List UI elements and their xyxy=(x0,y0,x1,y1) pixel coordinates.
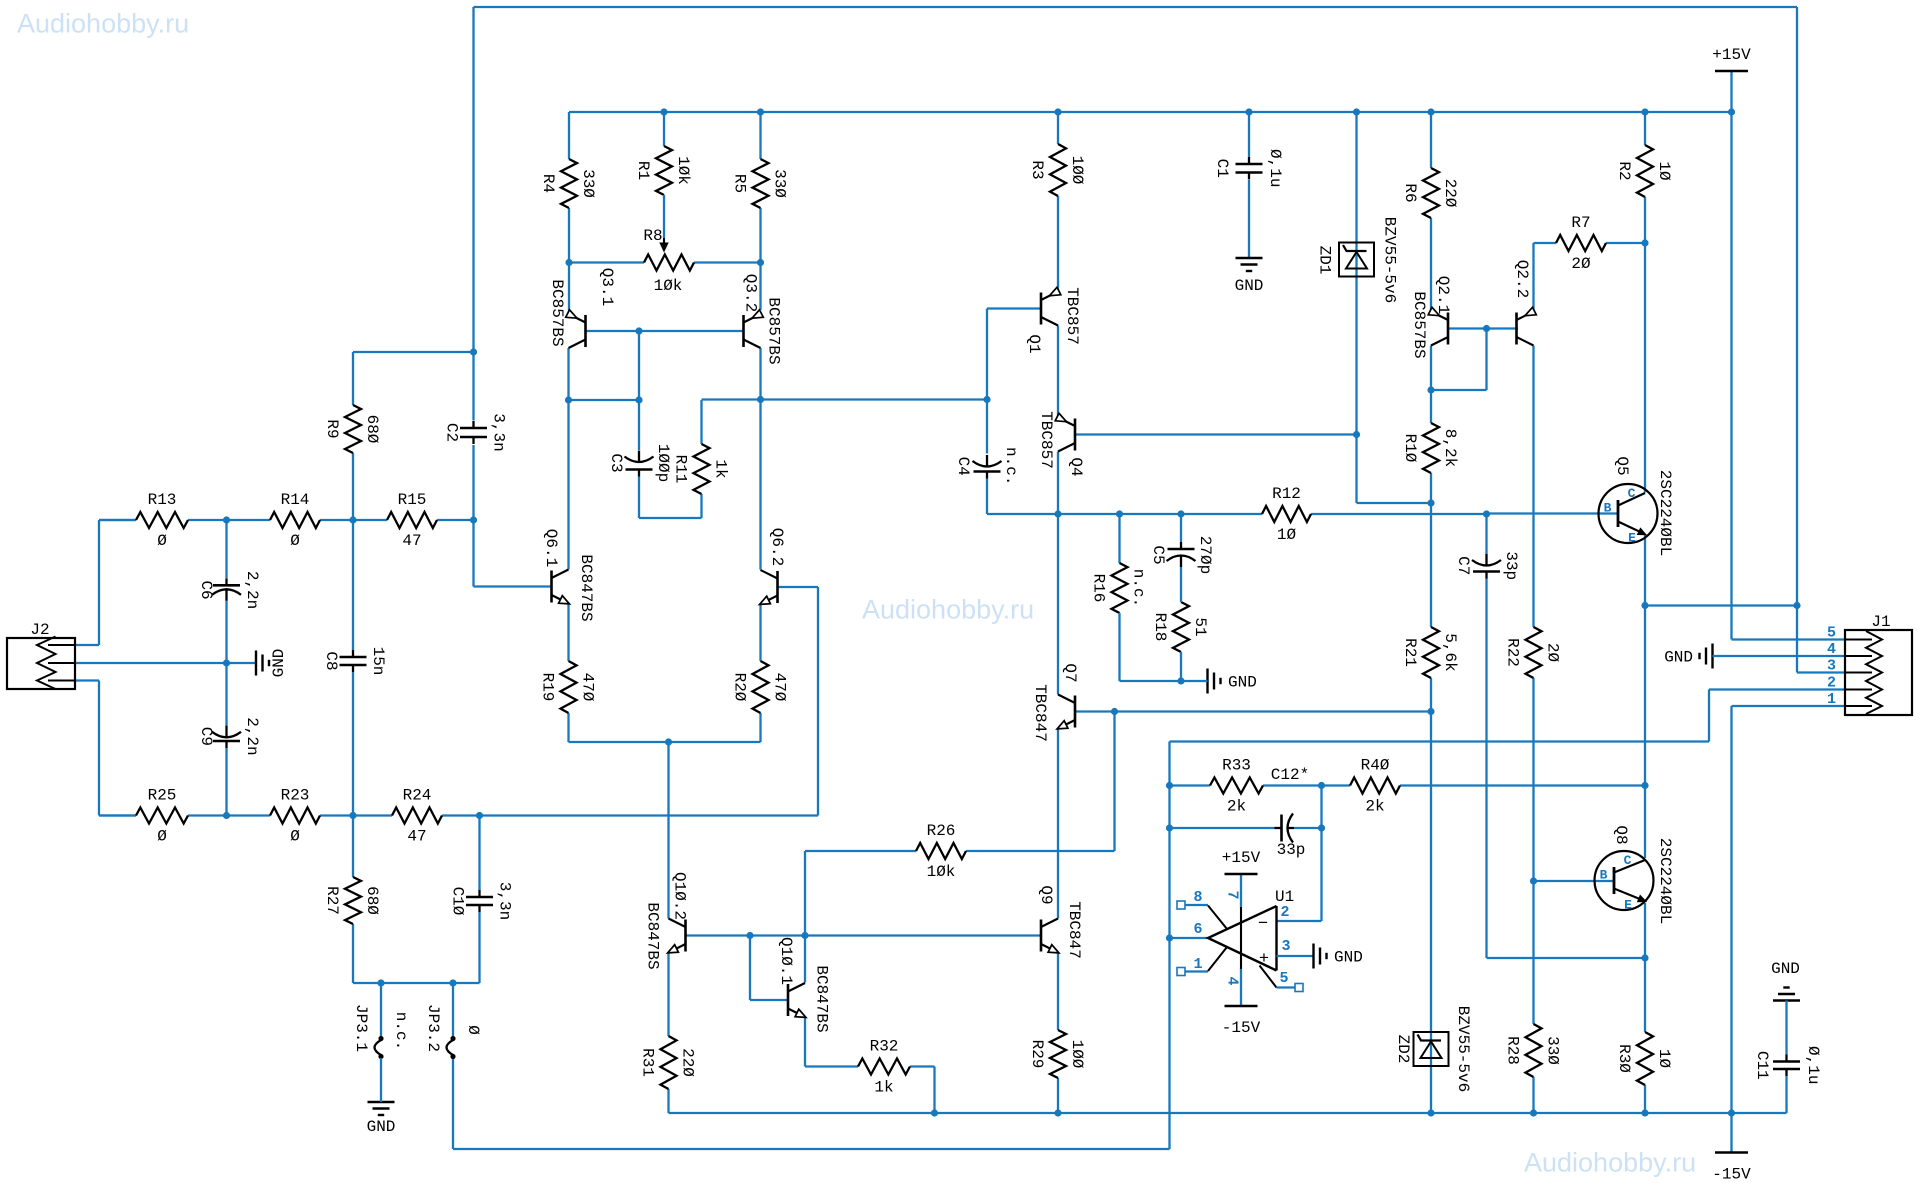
svg-text:C5: C5 xyxy=(1149,545,1167,564)
svg-text:Q2.2: Q2.2 xyxy=(1513,260,1531,298)
node JP3.2 top xyxy=(449,979,456,986)
svg-text:3: 3 xyxy=(1827,658,1836,675)
wire Q10.2 emitter to R31 xyxy=(667,953,669,1037)
svg-text:33Ø: 33Ø xyxy=(771,169,789,198)
svg-text:2,2n: 2,2n xyxy=(243,571,261,609)
svg-text:68Ø: 68Ø xyxy=(363,415,381,444)
resistor R20 xyxy=(753,661,769,713)
wire J2 pin3 riser xyxy=(98,681,100,816)
resistor R2 xyxy=(1644,112,1646,145)
resistor R21 xyxy=(1423,627,1439,678)
wire ZD2 column xyxy=(1430,712,1432,1114)
node Q10.1 base column xyxy=(746,932,753,939)
wire Q4 base xyxy=(1076,433,1357,435)
wire R8 right lead xyxy=(694,261,761,263)
svg-text:68Ø: 68Ø xyxy=(363,886,381,915)
svg-text:B: B xyxy=(1600,868,1608,883)
transistor Q10.1 xyxy=(787,984,790,1016)
wire Q6.2 base jog xyxy=(778,586,819,588)
wire R29 bottom xyxy=(1057,1078,1059,1113)
svg-text:C1: C1 xyxy=(1213,159,1231,178)
svg-text:GND: GND xyxy=(367,1118,396,1136)
wire Q10.1 base jog xyxy=(749,936,751,1001)
wire R31 bottom xyxy=(667,1089,669,1113)
svg-text:27Øp: 27Øp xyxy=(1196,536,1214,574)
svg-text:2,2n: 2,2n xyxy=(243,717,261,755)
ground J2 input xyxy=(255,651,257,676)
wire C6 bottom to node xyxy=(225,601,227,663)
svg-text:Q9: Q9 xyxy=(1037,885,1055,904)
resistor R1 xyxy=(663,112,665,146)
svg-text:2Ø: 2Ø xyxy=(1544,643,1562,663)
wire Q10.1 collector up xyxy=(804,936,806,983)
capacitor C1 xyxy=(1248,112,1250,157)
svg-text:R1: R1 xyxy=(634,161,652,180)
resistor R33 xyxy=(1210,778,1263,794)
svg-text:4: 4 xyxy=(1224,976,1241,985)
svg-text:1k: 1k xyxy=(712,459,730,478)
svg-text:Audiohobby.ru: Audiohobby.ru xyxy=(17,9,189,39)
svg-text:JP3.2: JP3.2 xyxy=(424,1004,442,1052)
svg-text:1ØØ: 1ØØ xyxy=(1068,1040,1086,1069)
node C5 top xyxy=(1177,510,1184,517)
svg-text:Q3.2: Q3.2 xyxy=(742,274,760,312)
wire R32 right jog xyxy=(910,1065,935,1067)
wire ZD1 column xyxy=(1355,112,1357,503)
wire R30 bottom xyxy=(1644,1085,1646,1113)
wire top rail xyxy=(474,6,1798,8)
svg-text:-15V: -15V xyxy=(1222,1019,1261,1037)
wire tail down to Q10.2 xyxy=(667,742,669,919)
node C7 top xyxy=(1483,510,1490,517)
svg-text:5: 5 xyxy=(1279,970,1288,987)
svg-text:n.c.: n.c. xyxy=(392,1012,410,1050)
node R33 right R40 left xyxy=(1318,782,1325,789)
svg-text:1k: 1k xyxy=(874,1079,893,1097)
svg-text:15n: 15n xyxy=(369,647,387,676)
svg-text:C6: C6 xyxy=(197,580,215,599)
node Q2.1 collector R10 xyxy=(1427,386,1434,393)
wire R21 leads xyxy=(1430,503,1432,627)
op-amp nc pins xyxy=(1177,901,1185,909)
transistor Q7 xyxy=(1074,696,1077,728)
node R27 top xyxy=(349,812,356,819)
svg-text:Ø: Ø xyxy=(290,828,300,846)
svg-text:BC847BS: BC847BS xyxy=(813,965,831,1032)
capacitor C5 xyxy=(1180,542,1182,549)
op-amp output pin3 wire xyxy=(1277,955,1314,957)
node Q5 emitter junction xyxy=(1641,602,1648,609)
svg-text:8: 8 xyxy=(1193,889,1202,906)
node VAS row x=1058 xyxy=(1054,510,1061,517)
node tail current junction xyxy=(665,738,672,745)
jumper JP3.1 xyxy=(380,983,382,1036)
svg-text:+15V: +15V xyxy=(1222,849,1261,867)
wire R20 bottom xyxy=(759,713,761,742)
wire Q6.2 collector up xyxy=(759,400,761,570)
resistor R19 xyxy=(561,661,577,713)
wire R4-R8 node vertical xyxy=(568,208,570,312)
wire R28 bottom xyxy=(1532,1077,1534,1113)
wire Q6.1 base xyxy=(474,585,552,587)
svg-text:33p: 33p xyxy=(1502,551,1520,580)
svg-text:R8: R8 xyxy=(643,227,662,245)
wire +15 to J1 pin5 column xyxy=(1730,112,1732,640)
wire right vertical x=1797 from top xyxy=(1796,7,1798,673)
svg-text:R32: R32 xyxy=(870,1038,899,1056)
op-amp pin5 stub xyxy=(1260,966,1277,988)
node R40 right xyxy=(1641,782,1648,789)
svg-text:51: 51 xyxy=(1191,617,1209,636)
wire R3 bottom to Q1 emitter xyxy=(1057,196,1059,292)
node ZD1 top xyxy=(1353,108,1360,115)
wire collector row right segment xyxy=(702,398,761,400)
svg-text:R31: R31 xyxy=(639,1048,657,1077)
wire x=568 Q3.1 to Q6.1 collector xyxy=(567,400,569,570)
resistor R26 xyxy=(916,843,966,859)
svg-text:1Ø: 1Ø xyxy=(1655,1049,1673,1069)
svg-text:R12: R12 xyxy=(1272,485,1301,503)
svg-text:1Øk: 1Øk xyxy=(674,156,692,185)
node C10 top R24 right xyxy=(476,812,483,819)
wire pin2 column xyxy=(1320,786,1322,922)
wire Q5 emitter down xyxy=(1644,535,1646,606)
wire R16/R18 gnd row xyxy=(1118,613,1120,681)
wire R2 bottom xyxy=(1644,197,1646,243)
node C6 top xyxy=(223,516,230,523)
svg-text:R16: R16 xyxy=(1090,574,1108,603)
wire gnd to C11 xyxy=(1785,1001,1787,1055)
op-amp U1 xyxy=(1208,906,1277,971)
svg-text:BZV55-5v6: BZV55-5v6 xyxy=(1381,217,1399,303)
node R5 bottom R8 right xyxy=(757,259,764,266)
resistor R7 xyxy=(1556,235,1606,251)
svg-text:8,2k: 8,2k xyxy=(1441,429,1459,467)
wire J1 pin2 jog xyxy=(1709,688,1845,690)
wire y=605 link xyxy=(1645,604,1797,606)
svg-text:C9: C9 xyxy=(197,727,215,746)
node x=1797 y=605 junction xyxy=(1793,602,1800,609)
wire x=473 C2 to row junction xyxy=(472,445,474,520)
svg-text:R21: R21 xyxy=(1401,638,1419,667)
wire C10 bottom xyxy=(478,912,480,983)
resistor R24 xyxy=(392,808,442,824)
node Q3.1 collector xyxy=(565,396,572,403)
svg-text:C: C xyxy=(1624,853,1632,868)
svg-text:R19: R19 xyxy=(539,673,557,702)
svg-text:BC857BS: BC857BS xyxy=(548,279,566,346)
wire y=503 link xyxy=(1357,502,1432,504)
wire Q7 emitter to Q9 collector xyxy=(1057,729,1059,919)
capacitor C12 xyxy=(1170,827,1275,829)
svg-text:R29: R29 xyxy=(1028,1040,1046,1069)
wire Q6.2 emitter to R20 xyxy=(759,604,761,662)
resistor R31 xyxy=(661,1036,677,1089)
capacitor C8 xyxy=(352,650,354,657)
transistor Q3.2 xyxy=(742,315,745,347)
capacitor C9 xyxy=(225,726,227,739)
svg-text:ZD1: ZD1 xyxy=(1316,246,1334,275)
wire R12 leads xyxy=(1181,513,1262,515)
svg-text:E: E xyxy=(1628,531,1636,546)
wire J1 pin5 xyxy=(1732,638,1846,640)
svg-text:R28: R28 xyxy=(1504,1036,1522,1065)
wire x=1645 down to R40 node xyxy=(1644,606,1646,786)
node Q8 base node xyxy=(1530,877,1537,884)
svg-text:JP3.1: JP3.1 xyxy=(352,1004,370,1052)
svg-text:R27: R27 xyxy=(323,886,341,915)
wire J2 pin2 to gnd node xyxy=(75,662,227,664)
svg-text:C: C xyxy=(1628,486,1636,501)
svg-text:R2Ø: R2Ø xyxy=(731,673,749,702)
wire Q3.1 collector down xyxy=(567,348,569,400)
node R4 bottom R8 left xyxy=(565,259,572,266)
wire Q1 base jog xyxy=(987,307,1041,309)
wire R26 right jog xyxy=(966,850,1115,852)
transistor Q5 xyxy=(1599,484,1658,543)
ground C1 xyxy=(1248,180,1250,258)
svg-text:R2: R2 xyxy=(1615,161,1633,180)
resistor R18 xyxy=(1173,602,1189,652)
wire Q2 base link xyxy=(1449,327,1519,329)
svg-text:47Ø: 47Ø xyxy=(771,673,789,702)
svg-text:B: B xyxy=(1604,501,1612,516)
resistor R40 xyxy=(1350,778,1400,794)
wire to Q5 base xyxy=(1487,512,1619,514)
resistor R25 xyxy=(99,814,136,816)
wire C9 top lead xyxy=(225,663,227,726)
wire R5 bottom to Q3.2 emitter xyxy=(759,208,761,263)
svg-text:2: 2 xyxy=(1280,904,1289,921)
svg-text:J2: J2 xyxy=(30,621,49,639)
svg-text:Q8: Q8 xyxy=(1612,825,1630,844)
node input gnd xyxy=(223,659,230,666)
wire to R9 top xyxy=(353,351,474,353)
svg-text:2SC224ØBL: 2SC224ØBL xyxy=(1656,470,1674,556)
svg-text:47: 47 xyxy=(402,532,421,550)
svg-text:3: 3 xyxy=(1281,938,1290,955)
power -15V bottom xyxy=(1715,1151,1748,1153)
transistor Q8 xyxy=(1595,851,1654,910)
svg-text:R6: R6 xyxy=(1401,183,1419,202)
wire R19 bottom xyxy=(567,713,569,742)
wire C3 top lead xyxy=(638,400,640,450)
wire R27 top xyxy=(352,816,354,878)
node R9 top junction xyxy=(470,348,477,355)
wire Q2.1 diode link xyxy=(1431,389,1487,391)
wire +15V stub vertical xyxy=(1730,71,1732,112)
wire C10 top lead xyxy=(478,816,480,891)
wire R27 bottom xyxy=(352,924,354,983)
wire R30 top xyxy=(1644,958,1646,1032)
wire Q2.1 collector down xyxy=(1430,346,1432,391)
svg-text:R9: R9 xyxy=(323,419,341,438)
wire Q7 base row y=711.5 xyxy=(1076,710,1432,712)
resistor R13 xyxy=(99,519,136,521)
wire base junction down to collector row xyxy=(638,331,640,400)
svg-text:R4: R4 xyxy=(539,174,557,193)
svg-text:GND: GND xyxy=(1228,674,1257,692)
zener diode ZD1 xyxy=(1339,243,1374,277)
svg-text:R18: R18 xyxy=(1151,613,1169,642)
wire J1 pin4 xyxy=(1713,655,1846,657)
node R16 top xyxy=(1116,510,1123,517)
resistor R14 xyxy=(270,512,320,528)
resistor R5 xyxy=(759,112,761,159)
svg-text:GND: GND xyxy=(1664,649,1693,667)
resistor R10 xyxy=(1423,423,1439,473)
resistor R16 xyxy=(1118,514,1120,563)
node R5 top xyxy=(757,108,764,115)
svg-text:n.c.: n.c. xyxy=(1130,569,1148,607)
wire JP3.2 bottom rail xyxy=(452,1057,454,1150)
svg-text:1ØØ: 1ØØ xyxy=(1068,156,1086,185)
svg-text:2k: 2k xyxy=(1365,798,1384,816)
transistor Q1 xyxy=(1040,293,1043,325)
wire Q10 base bus y=935.5 xyxy=(686,934,1041,936)
svg-text:6: 6 xyxy=(1193,921,1202,938)
svg-text:R15: R15 xyxy=(398,491,427,509)
node R29 bottom xyxy=(1054,1109,1061,1116)
svg-text:3,3n: 3,3n xyxy=(496,882,514,920)
node R2 top xyxy=(1641,108,1648,115)
node R7 right R2 bottom xyxy=(1641,239,1648,246)
svg-text:R23: R23 xyxy=(281,787,310,805)
capacitor C7 xyxy=(1485,554,1487,567)
svg-text:4: 4 xyxy=(1827,641,1836,658)
svg-text:C4: C4 xyxy=(954,457,972,476)
wire to Q6.2 base column xyxy=(480,814,819,816)
node R9 bottom C8 top xyxy=(349,516,356,523)
svg-text:R4Ø: R4Ø xyxy=(1361,757,1390,775)
node R1 top xyxy=(660,108,667,115)
wire R6 bottom to Q2.1 emitter xyxy=(1430,218,1432,312)
svg-text:Ø: Ø xyxy=(157,532,167,550)
node R10 bottom R21 top xyxy=(1427,499,1434,506)
wire +15V rail bus y=112 xyxy=(569,111,1732,113)
wire J1 pin3 horizontal xyxy=(1797,671,1845,673)
svg-text:7: 7 xyxy=(1224,890,1241,899)
wire C5 top lead xyxy=(1180,514,1182,542)
svg-text:R1Ø: R1Ø xyxy=(1401,434,1419,463)
wire R22 bottom to Q8 base node xyxy=(1532,678,1534,881)
resistor R15 xyxy=(387,512,437,528)
svg-text:Audiohobby.ru: Audiohobby.ru xyxy=(1524,1148,1696,1178)
resistor R29 xyxy=(1050,1030,1066,1078)
svg-text:R11: R11 xyxy=(672,455,690,484)
wire x=1645 to Q8 collector xyxy=(1644,786,1646,859)
wire C6 top lead xyxy=(225,520,227,578)
svg-text:GND: GND xyxy=(1334,949,1363,967)
svg-text:R14: R14 xyxy=(281,491,310,509)
svg-text:R26: R26 xyxy=(927,822,956,840)
wire -15V stub xyxy=(1730,1113,1732,1153)
transistor Q3.1 xyxy=(584,315,587,347)
capacitor C4 xyxy=(986,455,988,468)
node C12 right xyxy=(1318,824,1325,831)
wire R33-R40 row xyxy=(1170,784,1211,786)
wire C5 bottom xyxy=(1180,567,1182,602)
wire feedback y=741.5 xyxy=(1170,740,1710,742)
capacitor C11 xyxy=(1785,1055,1787,1062)
svg-text:Q6.2: Q6.2 xyxy=(768,528,786,566)
ground R18 xyxy=(1206,669,1208,694)
wire Q8 emitter down xyxy=(1644,903,1646,958)
svg-text:Q1Ø.2: Q1Ø.2 xyxy=(671,872,689,920)
node C12 left xyxy=(1166,824,1173,831)
resistor R9 xyxy=(345,405,361,453)
svg-text:Ø: Ø xyxy=(464,1025,482,1035)
svg-text:ZD2: ZD2 xyxy=(1394,1035,1412,1064)
resistor R28 xyxy=(1526,1024,1542,1077)
resistor R23 xyxy=(270,808,320,824)
transistor Q9 xyxy=(1040,920,1043,952)
transistor Q2.2 xyxy=(1515,313,1518,345)
svg-text:R33: R33 xyxy=(1222,757,1251,775)
svg-text:C3: C3 xyxy=(607,453,625,472)
node ZD1 bottom junction xyxy=(1353,431,1360,438)
wire J2 pin1 riser xyxy=(98,520,100,645)
wire C3 bottom jog xyxy=(638,477,640,519)
wire x=1169.5 feedback column xyxy=(1168,742,1170,1150)
wire input row y=520 xyxy=(99,519,136,521)
resistor R4 xyxy=(568,112,570,159)
svg-text:5: 5 xyxy=(1827,625,1836,642)
ground opamp pin3 xyxy=(1312,944,1314,969)
resistor R12 xyxy=(1262,506,1311,522)
wire Q9 emitter to R29 xyxy=(1057,953,1059,1031)
svg-text:1Øk: 1Øk xyxy=(927,863,956,881)
svg-text:R24: R24 xyxy=(403,787,432,805)
svg-text:Q4: Q4 xyxy=(1067,457,1085,476)
node R33 left xyxy=(1166,782,1173,789)
svg-text:R5: R5 xyxy=(731,174,749,193)
svg-text:Q1: Q1 xyxy=(1025,334,1043,353)
node R26 left column xyxy=(801,932,808,939)
wire R19-R20 bottom link xyxy=(569,741,761,743)
svg-text:E: E xyxy=(1624,898,1632,913)
wire J2 pin3 xyxy=(75,679,99,681)
svg-text:−: − xyxy=(1258,915,1268,934)
wire Q10.1 emitter to R32 xyxy=(804,1017,806,1067)
wire jumper row xyxy=(353,982,480,984)
wire Q8 base xyxy=(1534,880,1615,882)
wire R28 top xyxy=(1532,881,1534,1024)
capacitor C2 xyxy=(472,421,474,428)
wire opamp pin6 xyxy=(1170,937,1209,939)
svg-text:C2: C2 xyxy=(443,423,461,442)
svg-text:+15V: +15V xyxy=(1712,46,1751,64)
svg-text:BC857BS: BC857BS xyxy=(765,297,783,364)
wire C9 bottom lead xyxy=(225,748,227,816)
svg-text:1Ø: 1Ø xyxy=(1277,526,1297,544)
wire C4 bottom to row xyxy=(986,479,988,515)
svg-text:R22: R22 xyxy=(1504,638,1522,667)
ground J1 pin4 xyxy=(1711,644,1713,669)
svg-text:1ØØp: 1ØØp xyxy=(654,444,672,482)
transistor Q10.2 xyxy=(684,920,687,952)
svg-text:TBC857: TBC857 xyxy=(1037,411,1055,469)
svg-text:Q6.1: Q6.1 xyxy=(542,529,560,567)
node R6 top xyxy=(1427,108,1434,115)
svg-text:GND: GND xyxy=(1771,960,1800,978)
svg-text:22Ø: 22Ø xyxy=(1441,179,1459,208)
node R21 bottom xyxy=(1427,708,1434,715)
wire gnd stub xyxy=(227,662,257,664)
node R18 bottom xyxy=(1177,677,1184,684)
node R3 top xyxy=(1054,108,1061,115)
wire Q6.1 emitter to R19 xyxy=(567,604,569,662)
